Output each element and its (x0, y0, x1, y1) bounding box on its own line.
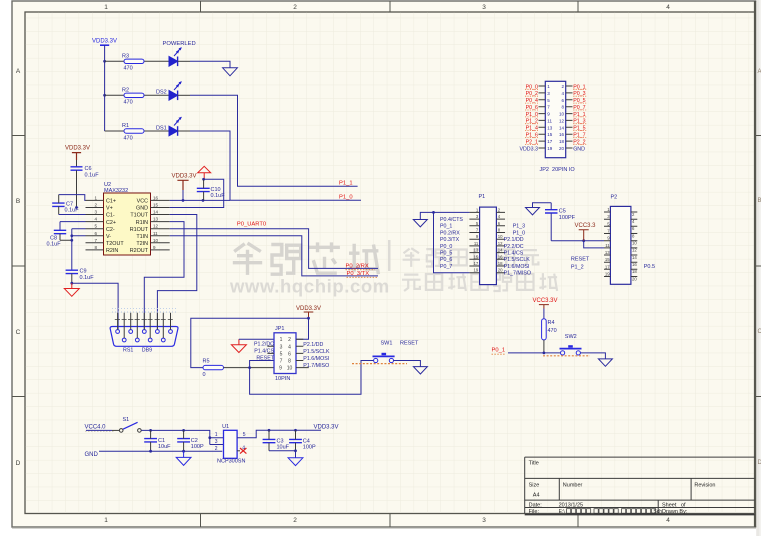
svg-text:16: 16 (498, 254, 503, 259)
svg-text:19: 19 (547, 146, 553, 151)
svg-text:0: 0 (203, 372, 206, 378)
capacitor C6 (71, 166, 100, 207)
svg-text:JP2 20PIN IO: JP2 20PIN IO (540, 167, 576, 173)
wire gnd to JP1 pin1 (239, 338, 274, 340)
ground (SW1) (413, 367, 427, 374)
svg-text:C1+: C1+ (106, 199, 116, 205)
svg-text:P0_0: P0_0 (440, 244, 452, 250)
U2 pin numbers (94, 195, 158, 250)
JP2 left net labels (519, 84, 538, 152)
node C8 join (70, 239, 73, 242)
svg-text:R2: R2 (122, 88, 129, 94)
wire DS2 to P1_1 (178, 94, 190, 96)
svg-text:470: 470 (124, 66, 133, 72)
svg-text:15: 15 (153, 203, 159, 208)
node VCC3.3 (582, 239, 585, 242)
JP2 pin numbers (547, 84, 564, 151)
svg-text:12: 12 (632, 248, 637, 253)
svg-text:P0_UART0: P0_UART0 (237, 222, 266, 228)
svg-text:10: 10 (559, 112, 565, 117)
svg-text:P1_7/MISO: P1_7/MISO (504, 271, 531, 277)
svg-text:4: 4 (666, 517, 670, 524)
power port VCC3.3V (R4) (533, 298, 558, 309)
error marks SW2 (543, 355, 590, 357)
svg-text:7: 7 (280, 359, 283, 365)
wire R1 branch (105, 130, 169, 132)
U1 pin4 stub + no-ERC (237, 450, 240, 452)
svg-text:VCC3.3V: VCC3.3V (533, 298, 558, 304)
svg-text:P1_1: P1_1 (339, 181, 353, 187)
svg-text:RESET: RESET (571, 257, 590, 263)
wire R5 to JP1 pin9 (224, 367, 275, 369)
JP2 pin stubs (539, 86, 573, 148)
svg-text:P0_2/RX: P0_2/RX (346, 263, 369, 269)
wire P1 pin1 pin19 gnd (420, 212, 469, 272)
svg-text:V-: V- (106, 234, 111, 240)
svg-text:P1.4/CS: P1.4/CS (254, 349, 274, 355)
svg-text:P1.4/CS: P1.4/CS (504, 251, 524, 257)
JP1 left net labels (254, 342, 275, 362)
node RESET branch (248, 366, 251, 369)
svg-text:File:: File: (529, 509, 540, 515)
svg-text:10: 10 (632, 241, 637, 246)
wire RESET to SW1 (250, 361, 374, 395)
svg-text:D: D (16, 460, 21, 467)
node C1 gnd (149, 450, 152, 453)
wire pin11 to P0_3/TX (170, 236, 378, 276)
svg-text:DS2: DS2 (156, 90, 167, 96)
svg-text:P2.1/DD: P2.1/DD (504, 237, 524, 243)
connector P1 (479, 194, 497, 285)
wire VCC4.0 to S1 (86, 429, 112, 431)
resistor R2 (122, 88, 144, 106)
ground (P1) (413, 220, 427, 227)
svg-text:R1: R1 (122, 123, 129, 129)
svg-text:1: 1 (104, 517, 108, 524)
svg-text:18: 18 (559, 139, 565, 144)
svg-text:P0_1: P0_1 (440, 224, 452, 230)
svg-text:VCC3.3: VCC3.3 (575, 223, 597, 229)
svg-text:P0_7: P0_7 (440, 264, 452, 270)
LED DS1 (156, 117, 182, 136)
svg-text:P0_1: P0_1 (492, 347, 506, 353)
svg-text:10uF: 10uF (158, 444, 171, 450)
JP1 pin stubs (267, 339, 308, 367)
node rail-R2 (103, 94, 106, 97)
wire pin12 to P0_2/RX (170, 229, 378, 269)
svg-text:6: 6 (288, 351, 291, 357)
switch S1 (119, 417, 141, 432)
svg-text:Drawn By:: Drawn By: (662, 509, 688, 515)
svg-text:1: 1 (280, 337, 283, 343)
svg-text:C9: C9 (80, 269, 87, 275)
svg-text:470: 470 (124, 100, 133, 106)
svg-text:RESET: RESET (256, 356, 274, 362)
capacitor C4 (289, 430, 316, 451)
svg-text:2: 2 (293, 517, 297, 524)
svg-text:Date:: Date: (529, 502, 543, 508)
svg-text:3: 3 (280, 344, 283, 350)
svg-text:P0_6: P0_6 (440, 257, 452, 263)
svg-text:16: 16 (559, 132, 565, 137)
wire U1 pin5 out (237, 430, 321, 437)
node C2 gnd (182, 450, 185, 453)
svg-text:470: 470 (124, 136, 133, 142)
error marks VCC4.0 (85, 430, 115, 432)
wire R3 branch (105, 60, 169, 62)
ground (SW2) (598, 359, 612, 366)
svg-text:C2: C2 (191, 438, 198, 444)
resistor R5 (203, 358, 224, 378)
svg-text:P1_0: P1_0 (339, 195, 353, 201)
svg-text:10: 10 (287, 366, 293, 372)
P2 pin numbers (605, 207, 637, 281)
svg-text:19: 19 (474, 268, 479, 273)
svg-text:11: 11 (547, 118, 552, 123)
wire DS1 to P1_0 (178, 130, 190, 132)
svg-text:P1.7/MISO: P1.7/MISO (303, 363, 329, 369)
svg-text:3: 3 (482, 4, 486, 11)
svg-text:16: 16 (632, 262, 637, 267)
svg-text:0.1uF: 0.1uF (211, 193, 226, 199)
wire pin5 pin6 to C9 (72, 229, 86, 271)
ground (red, JP1) (231, 339, 246, 352)
svg-text:18: 18 (632, 269, 637, 274)
svg-text:2: 2 (293, 4, 297, 11)
svg-text:.Sch: .Sch (652, 509, 662, 515)
JP1 right net labels (303, 342, 330, 369)
svg-text:VCC4.0: VCC4.0 (85, 425, 107, 431)
node C4 (294, 429, 297, 432)
IC U2 MAX3232 (104, 182, 151, 255)
svg-text:VDD3.3V: VDD3.3V (172, 174, 197, 180)
P1 pin stubs (469, 212, 505, 272)
wire C5 to P2 pin9 (551, 240, 604, 242)
svg-text:POWERLED: POWERLED (163, 41, 196, 47)
wire pin15 GND loop (170, 179, 224, 207)
wire pin14 T1OUT to DB9 (157, 215, 196, 331)
svg-text:0.1uF: 0.1uF (65, 208, 80, 214)
svg-text:T1OUT: T1OUT (130, 213, 148, 219)
wire pin1 C7 (59, 195, 86, 201)
connector P2 (610, 195, 631, 285)
svg-text:P1: P1 (479, 194, 486, 200)
error marks P0_3/TX (347, 276, 378, 278)
svg-text:C6: C6 (85, 166, 92, 172)
svg-text:P2: P2 (611, 195, 618, 201)
svg-text:R2IN: R2IN (106, 248, 118, 254)
svg-text:2: 2 (288, 337, 291, 343)
svg-text:R2OUT: R2OUT (130, 248, 149, 254)
power port VCC3.3 (575, 223, 597, 241)
svg-text:A: A (16, 68, 21, 75)
JP2 label underlines (525, 89, 586, 144)
svg-text:17: 17 (474, 261, 479, 266)
svg-text:V+: V+ (106, 206, 113, 212)
svg-text:VDD3.3: VDD3.3 (519, 146, 538, 152)
svg-text:P0.2/RX: P0.2/RX (440, 230, 460, 236)
svg-text:T2OUT: T2OUT (106, 241, 124, 247)
connector RS1 DB9 (110, 327, 178, 354)
switch SW2 (560, 334, 582, 355)
wire VDD to JP1 pin2 (296, 318, 309, 339)
svg-text:P1.5/SCLK: P1.5/SCLK (303, 349, 330, 355)
svg-text:VDD3.3V: VDD3.3V (314, 424, 339, 430)
svg-text:10: 10 (498, 234, 503, 239)
svg-text:C: C (16, 329, 21, 336)
U2 right pin stubs (151, 200, 170, 250)
U2 pin names (106, 199, 149, 255)
wire pin13 R1IN to DB9 (144, 222, 184, 330)
svg-text:17: 17 (547, 139, 553, 144)
svg-text:P0.3/TX: P0.3/TX (440, 237, 460, 243)
svg-text:12: 12 (153, 224, 159, 229)
node C10 bottom (202, 199, 205, 202)
power port VDD3.3V (LED rail) (92, 39, 117, 62)
svg-text:4: 4 (288, 344, 291, 350)
svg-text:A: A (758, 69, 761, 75)
svg-text:13: 13 (153, 217, 159, 222)
title block frame (525, 457, 755, 514)
svg-text:2013/1/25: 2013/1/25 (559, 502, 583, 508)
svg-text:C2+: C2+ (106, 220, 116, 226)
svg-text:VDD3.3V: VDD3.3V (92, 39, 117, 45)
svg-text:T2IN: T2IN (136, 241, 148, 247)
svg-text:2: 2 (215, 446, 218, 452)
svg-text:P1_0: P1_0 (513, 230, 525, 236)
U2 left pin stubs (86, 200, 104, 250)
svg-text:VDD3.3V: VDD3.3V (65, 146, 90, 152)
wire SW1 to ground (394, 361, 421, 367)
svg-text:Sheet of: Sheet of (662, 502, 686, 508)
svg-text:9: 9 (279, 366, 282, 372)
capacitor C7 (52, 195, 79, 215)
wire C9 to DB9 pin (72, 283, 118, 330)
node C3 (268, 429, 271, 432)
svg-text:P1.6/MOSI: P1.6/MOSI (504, 264, 530, 270)
svg-text:VDD3.3V: VDD3.3V (296, 306, 321, 312)
error marks SW1 (352, 363, 407, 365)
svg-text:JP1: JP1 (275, 326, 284, 332)
svg-text:DB9: DB9 (142, 348, 152, 354)
node C2 (182, 429, 185, 432)
node C9 gnd (70, 282, 73, 285)
LED POWERLED (163, 41, 196, 66)
svg-text:U1: U1 (222, 424, 229, 430)
LED DS2 (156, 82, 182, 101)
svg-text:18: 18 (498, 261, 503, 266)
svg-text:VCC: VCC (137, 199, 148, 205)
svg-text:R3: R3 (122, 54, 129, 60)
svg-text:Size: Size (529, 482, 540, 488)
switch SW1 (373, 341, 419, 363)
svg-text:10PIN: 10PIN (275, 376, 290, 382)
wire C5 to ground (533, 203, 552, 208)
node C1 (149, 429, 152, 432)
svg-text:10uF: 10uF (277, 445, 290, 451)
power port arrow (C10) (198, 166, 211, 179)
resistor R4 (542, 319, 557, 340)
svg-text:100P: 100P (191, 444, 204, 450)
svg-text:C1-: C1- (106, 213, 115, 219)
node pin6 join (70, 234, 73, 237)
regulator U1 NCP300SN (217, 424, 245, 464)
JP1 pin numbers (279, 337, 292, 371)
node P1 gnd branch (432, 211, 435, 214)
wire VDD to R5 (191, 318, 309, 367)
svg-text:C5: C5 (559, 208, 566, 214)
svg-text:GND: GND (85, 452, 99, 458)
svg-text:P2.1/DD: P2.1/DD (303, 342, 323, 348)
svg-text:0.1uF: 0.1uF (80, 275, 95, 281)
connector JP2 (545, 81, 565, 157)
svg-text:20: 20 (632, 276, 637, 281)
svg-text:R1OUT: R1OUT (130, 227, 149, 233)
svg-text:GND: GND (136, 206, 148, 212)
ground (C5) (526, 208, 540, 215)
svg-text:T1IN: T1IN (136, 234, 148, 240)
node C4 gnd (294, 449, 297, 452)
svg-text:P0.5: P0.5 (644, 264, 655, 270)
svg-text:P1_3: P1_3 (513, 224, 525, 230)
ground (red, C9) (64, 283, 79, 296)
capacitor C8 (47, 230, 72, 247)
wire C7 pin3 (59, 214, 86, 216)
svg-text:5: 5 (280, 351, 283, 357)
svg-text:Number: Number (563, 482, 583, 488)
capacitor C1 (144, 430, 171, 451)
wire pin16 VCC (170, 199, 230, 201)
svg-text:16: 16 (153, 195, 159, 200)
node C10 top (202, 178, 205, 181)
svg-text:1: 1 (215, 432, 218, 438)
error marks P0_1 (492, 353, 507, 355)
node P0_1 (543, 352, 546, 355)
svg-text:20: 20 (498, 268, 503, 273)
wire GND rail (99, 450, 222, 452)
svg-text:470: 470 (548, 328, 557, 334)
svg-text:E:\: E:\ (559, 509, 566, 515)
svg-text:8: 8 (288, 359, 291, 365)
P2 pin stubs (604, 212, 637, 277)
power port VDD3.3V (C6) (65, 146, 90, 167)
svg-text:1: 1 (104, 4, 108, 11)
svg-text:P0.4/CTS: P0.4/CTS (440, 217, 463, 223)
svg-text:11: 11 (474, 241, 479, 246)
capacitor C9 (66, 269, 95, 284)
wire P0_1 to SW2 (508, 352, 560, 354)
capacitor C5 (545, 203, 576, 241)
svg-text:P2.2/DC: P2.2/DC (504, 244, 524, 250)
svg-text:14: 14 (632, 255, 637, 260)
power port VDD3.3V (U2 VCC) (172, 174, 197, 201)
wire R4 to node (543, 340, 545, 353)
resistor R3 (122, 54, 144, 72)
connector JP1 (274, 326, 296, 382)
watermark (229, 240, 557, 297)
svg-text:P0_5: P0_5 (440, 251, 452, 257)
svg-text:P1.6/MOSI: P1.6/MOSI (303, 356, 329, 362)
svg-text:100P: 100P (303, 445, 316, 451)
svg-text:P1.2/DC: P1.2/DC (254, 342, 274, 348)
svg-text:15: 15 (474, 254, 479, 259)
wire VDD rail (104, 61, 106, 131)
svg-text:19: 19 (605, 272, 610, 277)
node C6-pin2 (75, 206, 78, 209)
svg-text:RS1: RS1 (123, 348, 133, 354)
svg-text:12: 12 (559, 118, 565, 123)
svg-text:10: 10 (153, 238, 159, 243)
svg-text:C2-: C2- (106, 227, 115, 233)
capacitor C10 (197, 179, 225, 200)
wire C3 C4 gnd (269, 451, 296, 458)
svg-text:SW2: SW2 (565, 334, 577, 340)
svg-text:3: 3 (482, 517, 486, 524)
svg-text:RESET: RESET (400, 341, 419, 347)
P1 left net labels (440, 217, 463, 270)
capacitor C2 (177, 430, 204, 451)
svg-text:NCP300SN: NCP300SN (217, 459, 245, 465)
svg-text:20: 20 (559, 146, 565, 151)
svg-text:GND: GND (573, 146, 585, 152)
svg-text:A4: A4 (533, 492, 540, 498)
svg-text:13: 13 (605, 250, 610, 255)
svg-text:R1IN: R1IN (136, 220, 148, 226)
svg-text:14: 14 (559, 125, 565, 130)
svg-text:15: 15 (547, 132, 553, 137)
svg-text:17: 17 (605, 264, 610, 269)
svg-text:P1_2: P1_2 (571, 265, 584, 271)
ground (C4) (288, 458, 303, 466)
wire POWERLED to ground (178, 60, 190, 62)
svg-text:11: 11 (153, 231, 158, 236)
ground (POWERLED) (223, 68, 238, 76)
svg-text:13: 13 (474, 248, 479, 253)
svg-text:15: 15 (605, 257, 610, 262)
svg-text:DS1: DS1 (156, 126, 167, 132)
svg-text:Title: Title (529, 461, 539, 467)
resistor R1 (122, 123, 144, 142)
svg-text:C: C (758, 329, 761, 335)
svg-text:S1: S1 (123, 417, 130, 423)
ground (C2) (176, 451, 191, 465)
wire R2 branch (105, 94, 169, 96)
svg-text:C1: C1 (158, 438, 165, 444)
U1 pin numbers (215, 432, 246, 452)
svg-text:4: 4 (666, 4, 670, 11)
DB9 select dots (112, 309, 176, 312)
node VDD-JP1 (307, 317, 310, 320)
svg-text:B: B (758, 198, 761, 204)
wire VCC to R4 (543, 309, 545, 319)
svg-text:P1.5/SCLK: P1.5/SCLK (504, 257, 531, 263)
wire branch JP1 pin7 (250, 361, 274, 368)
svg-text:Revision: Revision (694, 482, 715, 488)
svg-text:SW1: SW1 (381, 341, 393, 347)
error marks P0_2/RX (346, 269, 376, 271)
capacitor C3 (263, 430, 290, 451)
DB9 pin stubs (115, 313, 173, 338)
JP2 right net labels (573, 84, 585, 152)
wire C8 pin4 (60, 222, 86, 231)
svg-text:13: 13 (547, 125, 553, 130)
wire S1 to U1 (141, 430, 223, 444)
P1 right net labels (504, 224, 531, 277)
svg-text:B: B (16, 198, 20, 205)
svg-text:0.1uF: 0.1uF (85, 173, 100, 179)
svg-text:12: 12 (498, 241, 503, 246)
wire SW2 to ground (580, 353, 605, 359)
